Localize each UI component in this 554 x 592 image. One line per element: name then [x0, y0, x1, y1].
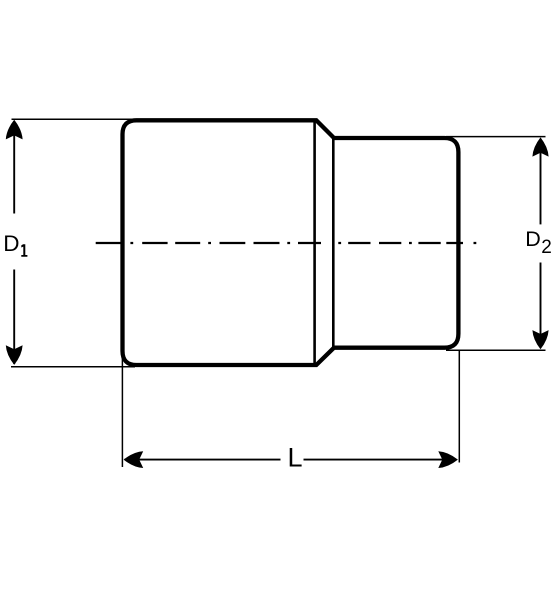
- L dimension line right segment: [304, 459, 457, 461]
- L arrow left: [124, 451, 144, 468]
- D2 dimension line lower segment: [540, 263, 542, 348]
- D2 arrow up: [532, 137, 548, 156]
- D2 dimension: bottom extension line: [446, 349, 546, 351]
- D2 dimension: top extension line: [446, 136, 546, 138]
- L dimension: right extension line: [458, 351, 460, 463]
- socket body outline: [123, 120, 459, 365]
- svg-text:L: L: [288, 443, 303, 473]
- centerline (dash-dot): [96, 242, 477, 244]
- face edge line (left vertical of taper): [313, 120, 316, 365]
- svg-text:2: 2: [541, 237, 552, 258]
- D1 dimension line upper segment: [13, 121, 15, 214]
- svg-text:D: D: [3, 231, 19, 256]
- D2 arrow down: [532, 330, 548, 349]
- svg-text:D: D: [525, 227, 541, 251]
- subscript 1 of D1 (footed one): [21, 244, 27, 257]
- D1 dimension: top extension line: [12, 118, 138, 120]
- taper end line (right vertical of taper): [332, 138, 335, 348]
- D1 arrow up: [6, 120, 23, 140]
- D1 dimension line lower segment: [13, 270, 15, 365]
- L arrow right: [438, 451, 458, 468]
- L dimension: left extension line: [121, 353, 123, 467]
- D1 arrow down: [6, 345, 23, 365]
- L dimension line left segment: [125, 459, 281, 461]
- D2 dimension line upper segment: [540, 139, 542, 225]
- D1 dimension: bottom extension line: [11, 366, 135, 368]
